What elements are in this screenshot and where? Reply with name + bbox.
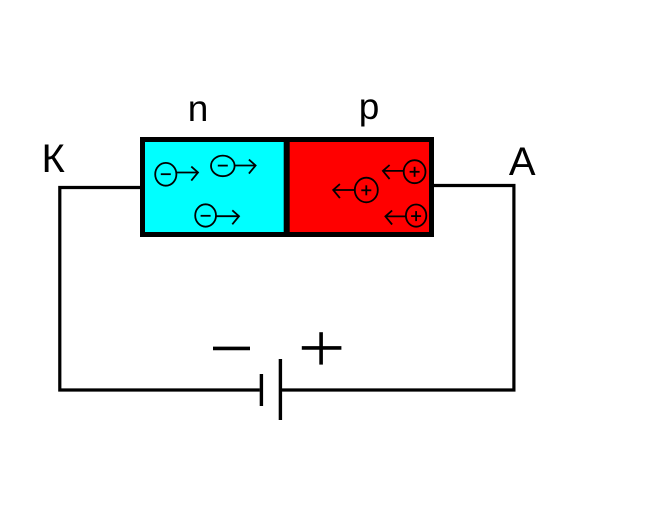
label К (cathode) [42, 137, 66, 181]
wire from cathode to battery negative [60, 188, 260, 391]
electron e3 with arrow [195, 204, 239, 226]
minus polarity sign [213, 347, 250, 351]
p-n junction bar [284, 137, 290, 237]
electron e2 with arrow [211, 156, 256, 177]
p-region (red semiconductor block) [287, 137, 434, 237]
battery negative plate (short) [260, 374, 263, 406]
svg-text:p: p [359, 86, 380, 127]
hole h1 with arrow [383, 160, 426, 183]
label p [359, 86, 380, 127]
label n [188, 88, 209, 129]
wire from battery positive to anode [282, 186, 514, 391]
label A (anode) [509, 140, 536, 184]
hole h2 with arrow [333, 178, 378, 203]
hole h3 with arrow [385, 205, 426, 227]
diode body border [143, 140, 432, 235]
svg-text:n: n [188, 88, 209, 129]
svg-text:A: A [509, 140, 536, 184]
svg-text:К: К [42, 137, 66, 181]
plus polarity sign [302, 332, 342, 364]
n-region (cyan semiconductor block) [140, 137, 287, 237]
battery positive plate (long) [279, 359, 282, 420]
electron e1 with arrow [155, 163, 198, 186]
